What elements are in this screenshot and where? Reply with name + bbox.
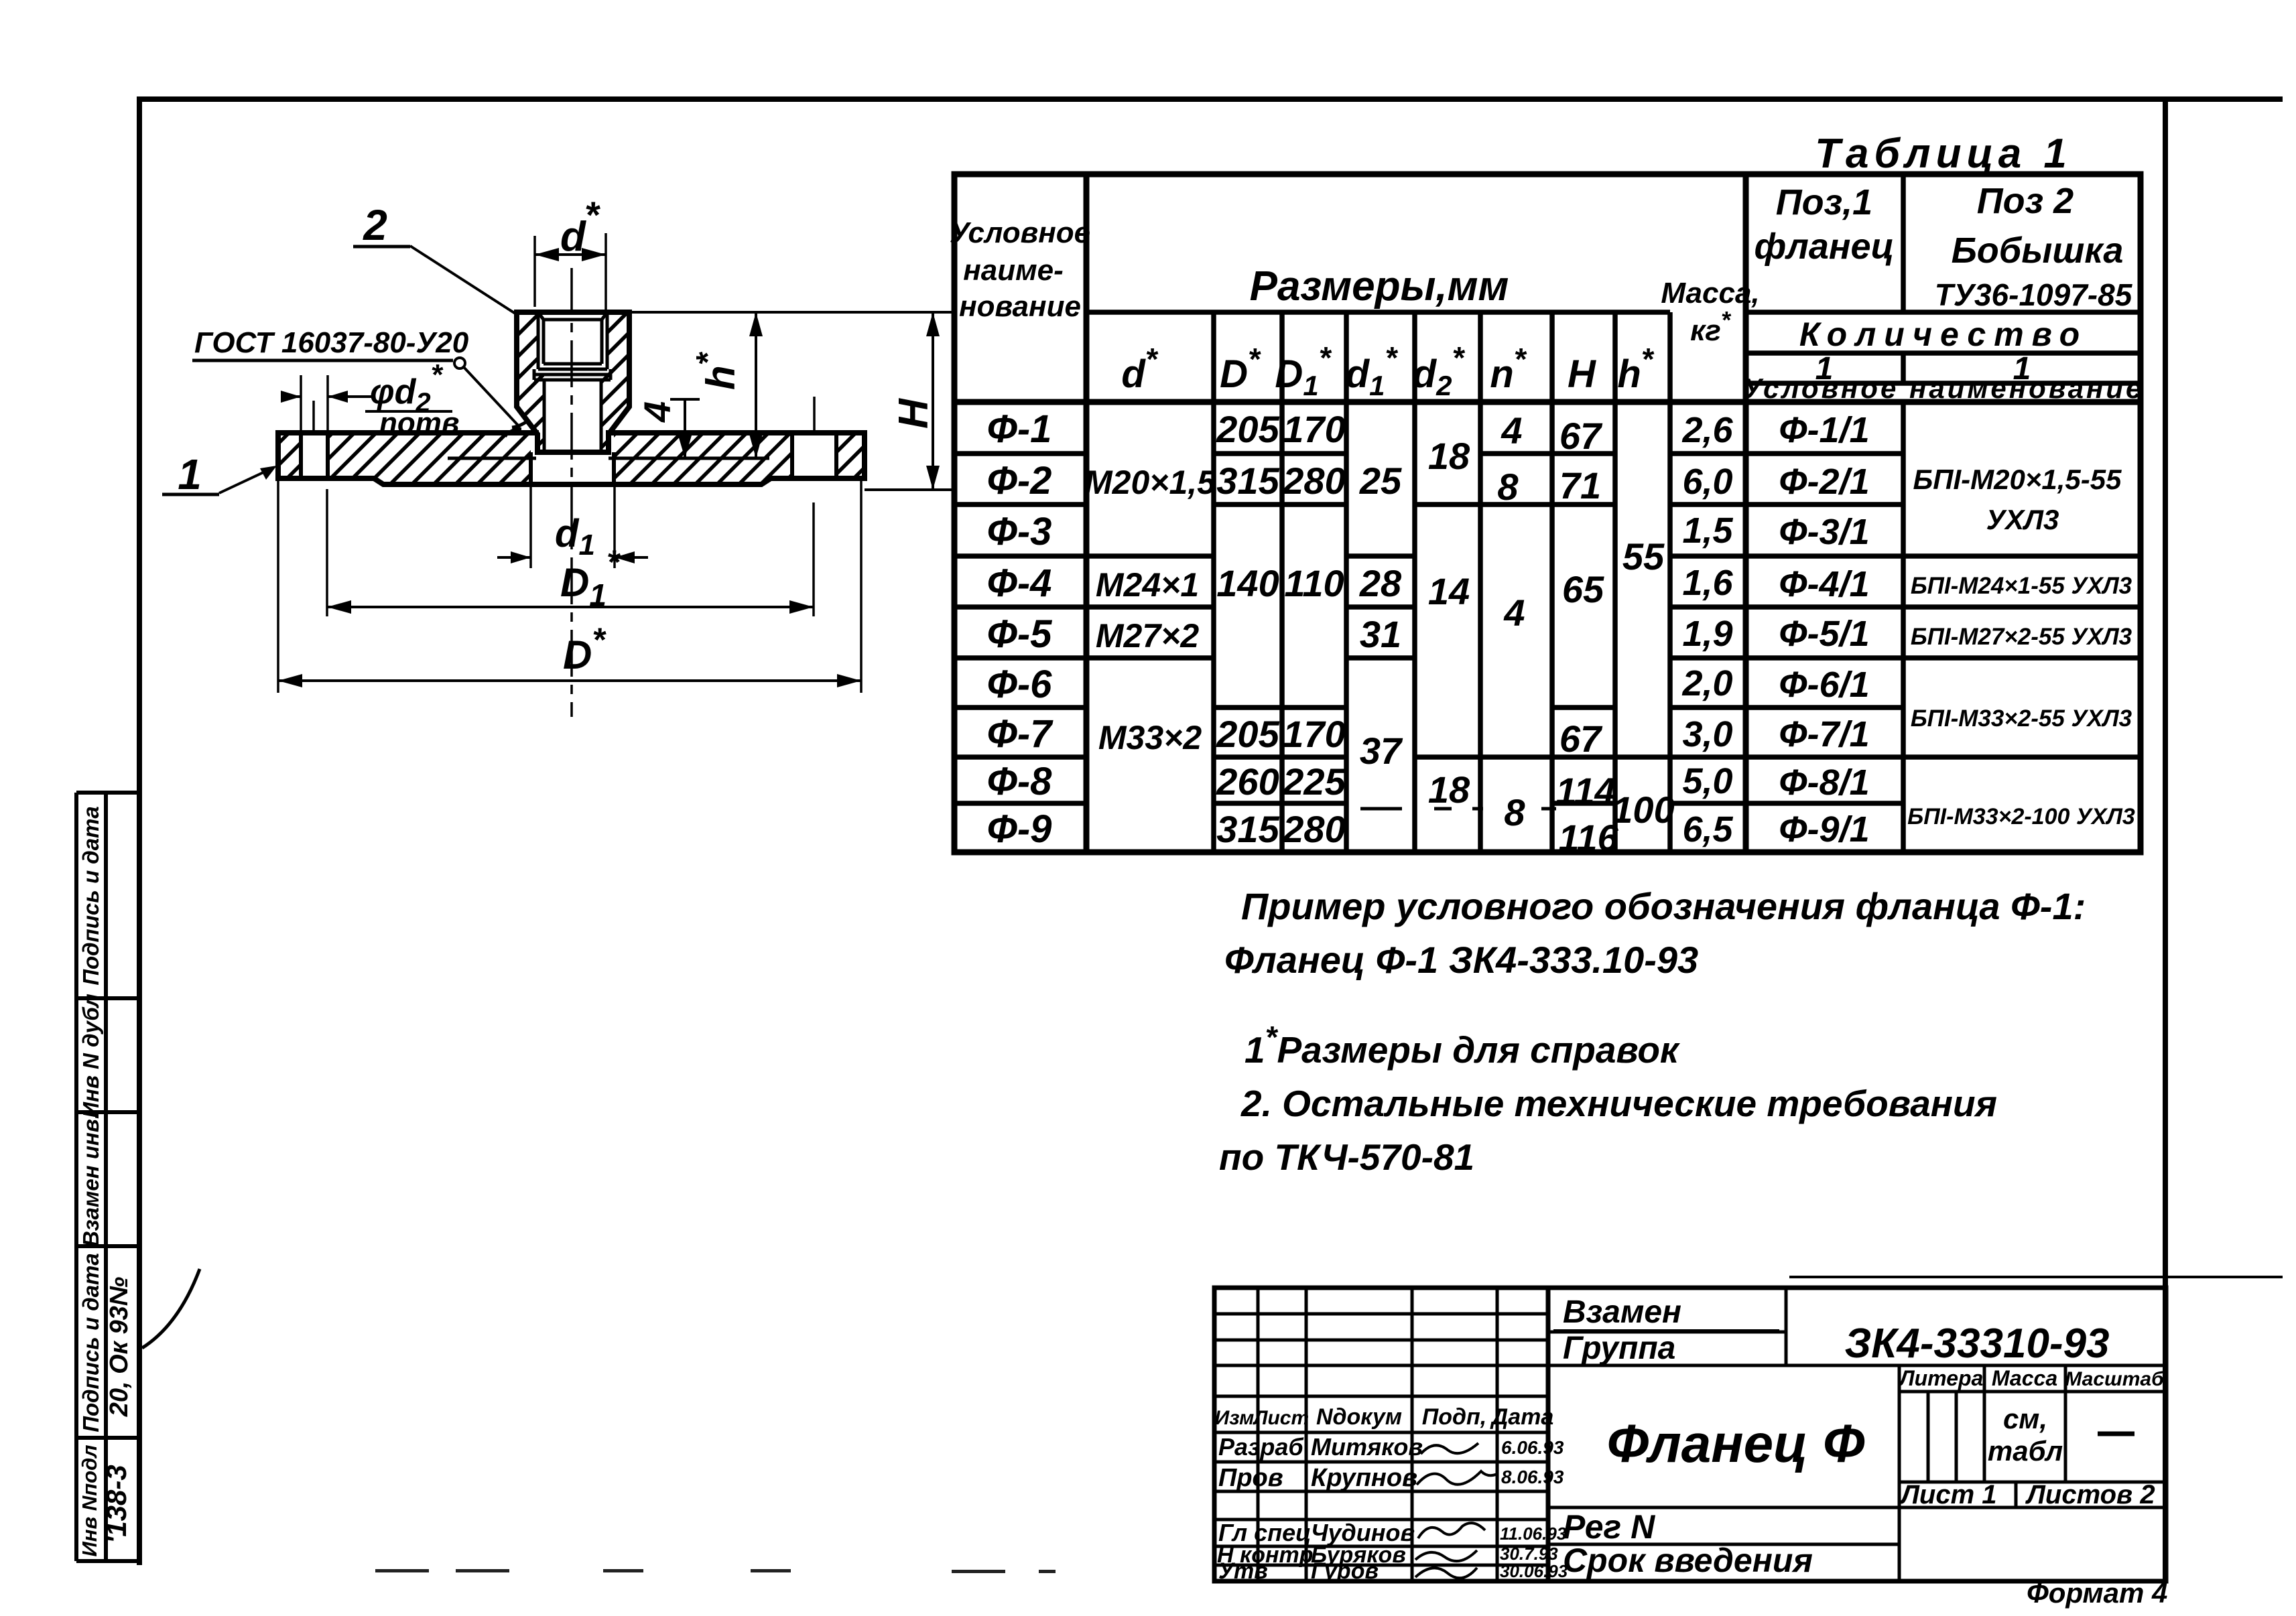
svg-text:20, Ок 93№: 20, Ок 93№ [105, 1277, 133, 1418]
svg-text:Ф-5: Ф-5 [987, 612, 1053, 656]
svg-text:Условное наименование: Условное наименование [1743, 373, 2145, 404]
svg-text:Ф-2/1: Ф-2/1 [1779, 462, 1869, 502]
svg-text:2,0: 2,0 [1681, 663, 1732, 703]
weld fillet mark [512, 419, 529, 427]
svg-text:Подпись и дата: Подпись и дата [78, 806, 103, 986]
svg-text:6.06.93: 6.06.93 [1501, 1437, 1564, 1458]
svg-text:225: 225 [1282, 760, 1346, 803]
svg-text:114: 114 [1555, 770, 1615, 812]
svg-text:8: 8 [1504, 791, 1525, 833]
svg-text:Пров: Пров [1218, 1464, 1283, 1492]
svg-text:315: 315 [1216, 808, 1279, 850]
d* dimension line [535, 253, 606, 256]
svg-text:315: 315 [1216, 460, 1279, 502]
svg-text:Ф-3: Ф-3 [987, 510, 1052, 553]
svg-text:1,6: 1,6 [1682, 563, 1733, 603]
left vertical strip box [76, 793, 140, 1561]
svg-text:28: 28 [1359, 562, 1402, 604]
svg-text:71: 71 [1559, 464, 1601, 507]
svg-text:Ф-7: Ф-7 [987, 712, 1054, 756]
svg-text:6,5: 6,5 [1682, 809, 1733, 850]
frame bottom faded dashes [375, 1569, 1056, 1573]
bolt hole centerlines above plate [312, 401, 315, 434]
row line r7 [954, 754, 1086, 760]
svg-text:Разраб: Разраб [1218, 1433, 1304, 1461]
row line r8 [954, 801, 1086, 806]
svg-text:1,5: 1,5 [1682, 511, 1733, 551]
strip handwriting flourish [142, 1269, 200, 1348]
svg-text:Масса: Масса [1992, 1366, 2057, 1390]
plate hatch right main [614, 433, 792, 484]
svg-text:Ф-3/1: Ф-3/1 [1779, 512, 1869, 552]
mid/right section [1785, 1288, 1788, 1365]
inner bore walls [543, 380, 546, 452]
svg-text:наиме-: наиме- [963, 254, 1064, 287]
svg-text:Количество: Количество [1799, 316, 2088, 353]
svg-text:H: H [891, 398, 937, 429]
frame top border [138, 96, 2283, 102]
svg-text:31: 31 [1360, 613, 1401, 655]
svg-text:116: 116 [1558, 817, 1618, 859]
boss thread bore [534, 312, 611, 452]
column БПI values [1907, 464, 2135, 829]
sub-header column lines [1211, 312, 1216, 852]
svg-text:Ф-8/1: Ф-8/1 [1779, 762, 1869, 803]
svg-text:Подп,: Подп, [1422, 1404, 1486, 1430]
frame right border [2163, 99, 2168, 1580]
svg-text:Ф-1: Ф-1 [987, 407, 1052, 451]
svg-text:Масштаб: Масштаб [2065, 1368, 2165, 1390]
svg-text:1,9: 1,9 [1682, 614, 1732, 654]
svg-text:Формат 4: Формат 4 [2027, 1577, 2167, 1609]
svg-text:3,0: 3,0 [1682, 714, 1732, 754]
svg-text:2: 2 [363, 201, 387, 249]
svg-text:4: 4 [1503, 592, 1525, 634]
svg-text:Пример условного обозначения ф: Пример условного обозначения фланца Ф-1: [1241, 885, 2086, 927]
left section horizontals [1214, 1312, 1548, 1316]
column d2* values [1428, 435, 1470, 811]
svg-text:М33×2: М33×2 [1098, 719, 1202, 756]
svg-text:30.06.93: 30.06.93 [1500, 1561, 1568, 1581]
svg-text:М24×1: М24×1 [1096, 566, 1199, 604]
dash in Масштаб [2098, 1432, 2134, 1436]
svg-text:Ф-6/1: Ф-6/1 [1779, 665, 1869, 705]
column D1* values [1282, 408, 1346, 850]
row line r6 [954, 705, 1086, 710]
svg-text:67: 67 [1559, 415, 1603, 457]
svg-text:ʹ138-3: ʹ138-3 [101, 1465, 132, 1543]
svg-text:nотв: nотв [379, 407, 459, 440]
svg-text:205: 205 [1216, 408, 1279, 450]
svg-text:Ф-5/1: Ф-5/1 [1779, 614, 1869, 654]
svg-text:БПI-М33×2-100 УХЛ3: БПI-М33×2-100 УХЛ3 [1907, 804, 2135, 829]
svg-text:67: 67 [1559, 718, 1603, 760]
row line r1 [954, 451, 1086, 456]
svg-text:Ф-4/1: Ф-4/1 [1779, 564, 1869, 604]
svg-text:100: 100 [1612, 789, 1674, 831]
column D* values [1216, 408, 1279, 850]
svg-text:Nдокум: Nдокум [1316, 1404, 1402, 1430]
svg-text:Инв Nподл: Инв Nподл [78, 1444, 101, 1556]
left section verticals [1257, 1288, 1260, 1581]
dashed row continuation marks [1360, 807, 1556, 811]
frame left border [137, 96, 142, 1565]
svg-text:Инв N дубл: Инв N дубл [78, 994, 103, 1118]
Поз1/Поз2 divider [1901, 174, 1906, 312]
column Ф-1..Ф-9 [987, 407, 1054, 851]
svg-text:Срок введения: Срок введения [1563, 1542, 1813, 1579]
svg-text:Поз,1: Поз,1 [1776, 182, 1872, 222]
svg-text:см,: см, [2003, 1403, 2047, 1434]
svg-text:Бобышка: Бобышка [1952, 230, 2124, 271]
D* dimension [277, 481, 279, 693]
svg-text:Взамен инв.: Взамен инв. [78, 1113, 103, 1247]
svg-text:Ф-6: Ф-6 [987, 663, 1053, 706]
row line r2 [954, 502, 1086, 507]
plate hatch left outer rim [278, 433, 301, 478]
row line r4 [954, 604, 1214, 610]
svg-text:ГОСТ 16037-80-У20: ГОСТ 16037-80-У20 [194, 326, 469, 359]
svg-text:6,0: 6,0 [1682, 462, 1732, 502]
svg-text:55: 55 [1622, 535, 1665, 578]
svg-text:Литера: Литера [1899, 1366, 1984, 1390]
svg-text:2. Остальные технические требо: 2. Остальные технические требования [1240, 1083, 1997, 1124]
svg-text:Условное: Условное [950, 216, 1090, 249]
column Масса values [1681, 410, 1733, 850]
svg-text:Ф-7/1: Ф-7/1 [1779, 714, 1869, 754]
plate hatch right outer rim [836, 433, 865, 478]
svg-text:БПI-М20×1,5-55: БПI-М20×1,5-55 [1913, 464, 2122, 495]
svg-text:Поз 2: Поз 2 [1977, 181, 2074, 221]
svg-text:Ф-9: Ф-9 [987, 807, 1052, 851]
svg-text:4: 4 [1501, 409, 1522, 452]
recess step lines (4mm) [448, 457, 536, 460]
column d1* values [1359, 460, 1403, 772]
svg-text:БПI-М33×2-55 УХЛ3: БПI-М33×2-55 УХЛ3 [1911, 705, 2132, 732]
boss hatch left wall [517, 312, 544, 452]
plate hatch left main [328, 433, 531, 484]
svg-text:37: 37 [1360, 730, 1403, 772]
svg-text:Рег N: Рег N [1563, 1508, 1655, 1546]
svg-text:*: * [584, 194, 600, 236]
svg-text:Лист 1: Лист 1 [1899, 1480, 1996, 1509]
svg-text:Дата: Дата [1490, 1404, 1554, 1430]
svg-text:Масса,: Масса, [1661, 277, 1759, 310]
column h* values [1612, 535, 1674, 831]
svg-text:Гуров: Гуров [1311, 1558, 1379, 1584]
svg-text:Крупнов: Крупнов [1311, 1464, 1417, 1492]
svg-text:по ТКЧ-570-81: по ТКЧ-570-81 [1219, 1136, 1474, 1178]
row line r3 [954, 553, 1214, 559]
plate center hole walls [529, 452, 533, 484]
svg-text:H: H [1568, 352, 1596, 396]
column n* values [1497, 409, 1525, 833]
svg-text:11.06.93: 11.06.93 [1500, 1524, 1567, 1544]
svg-text:ТУ36-1097-85: ТУ36-1097-85 [1935, 277, 2133, 312]
svg-text:280: 280 [1282, 808, 1345, 850]
plate outline [278, 433, 865, 484]
svg-text:170: 170 [1283, 713, 1345, 755]
4 dimension [670, 398, 700, 401]
d* extension lines [533, 236, 536, 307]
svg-text:2,6: 2,6 [1681, 410, 1733, 450]
column d* values [1084, 464, 1216, 756]
svg-text:205: 205 [1216, 713, 1279, 755]
svg-text:5,0: 5,0 [1682, 761, 1732, 801]
svg-text:280: 280 [1282, 460, 1345, 502]
svg-text:фланец: фланец [1755, 226, 1895, 267]
svg-text:Размеры,мм: Размеры,мм [1250, 263, 1509, 310]
svg-text:25: 25 [1359, 460, 1402, 502]
svg-text:Фланец Ф: Фланец Ф [1607, 1414, 1865, 1473]
svg-text:М27×2: М27×2 [1096, 617, 1199, 655]
svg-text:Подпись и дата: Подпись и дата [78, 1253, 103, 1432]
svg-text:УХЛ3: УХЛ3 [1986, 504, 2059, 535]
d2 dimension [281, 395, 301, 398]
svg-text:170: 170 [1283, 408, 1345, 450]
svg-text:65: 65 [1562, 568, 1604, 610]
svg-text:18: 18 [1428, 768, 1470, 811]
svg-text:8: 8 [1497, 466, 1519, 508]
thread relief collar [538, 368, 607, 371]
svg-text:260: 260 [1216, 760, 1279, 803]
boss hatch right wall [601, 312, 629, 452]
svg-text:18: 18 [1428, 435, 1470, 477]
center axis line [570, 268, 573, 717]
svg-text:Листов 2: Листов 2 [2025, 1480, 2155, 1509]
svg-text:БПI-М27×2-55 УХЛ3: БПI-М27×2-55 УХЛ3 [1911, 624, 2132, 650]
stray scan line above title block [1789, 1276, 2283, 1278]
svg-text:БПI-М24×1-55 УХЛ3: БПI-М24×1-55 УХЛ3 [1911, 573, 2132, 599]
svg-text:Фланец Ф-1 ЗК4-333.10-93: Фланец Ф-1 ЗК4-333.10-93 [1224, 939, 1698, 981]
table outer and vertical lines [954, 174, 2141, 852]
svg-text:Митяков: Митяков [1311, 1433, 1423, 1461]
svg-text:8.06.93: 8.06.93 [1501, 1467, 1564, 1487]
svg-text:Лист: Лист [1253, 1407, 1309, 1429]
svg-text:140: 140 [1216, 562, 1279, 604]
svg-text:Изм: Изм [1215, 1407, 1255, 1429]
d1 dimension below plate [529, 486, 532, 568]
boss outline [517, 312, 629, 452]
header horizontal lines [1086, 310, 1670, 315]
svg-text:Ф-8: Ф-8 [987, 760, 1053, 803]
svg-text:1: 1 [178, 450, 202, 498]
h* dimension [755, 312, 757, 458]
svg-text:Взамен: Взамен [1563, 1294, 1681, 1330]
svg-text:d: d [560, 214, 586, 260]
svg-text:14: 14 [1428, 570, 1470, 612]
svg-text:Группа: Группа [1563, 1331, 1675, 1366]
bolt hole walls [301, 433, 836, 484]
svg-text:табл: табл [1988, 1435, 2063, 1467]
svg-text:Утв: Утв [1218, 1558, 1268, 1584]
D1* dimension [326, 489, 328, 616]
svg-text:Ф-1/1: Ф-1/1 [1779, 410, 1869, 450]
svg-text:Ф-2: Ф-2 [987, 459, 1052, 502]
svg-text:М20×1,5: М20×1,5 [1084, 464, 1216, 501]
H dimension at right [629, 311, 952, 314]
svg-text:Ф-4: Ф-4 [987, 561, 1052, 605]
svg-text:110: 110 [1284, 562, 1344, 604]
column H values [1555, 415, 1618, 859]
svg-text:4: 4 [636, 401, 678, 423]
svg-text:Таблица 1: Таблица 1 [1815, 131, 2072, 177]
svg-text:ЗК4-33310-93: ЗК4-33310-93 [1844, 1321, 2109, 1367]
svg-text:нование: нование [959, 290, 1081, 323]
row line r5 [954, 655, 1214, 661]
column Поз1 values [1779, 410, 1869, 850]
svg-text:Ф-9/1: Ф-9/1 [1779, 809, 1869, 850]
